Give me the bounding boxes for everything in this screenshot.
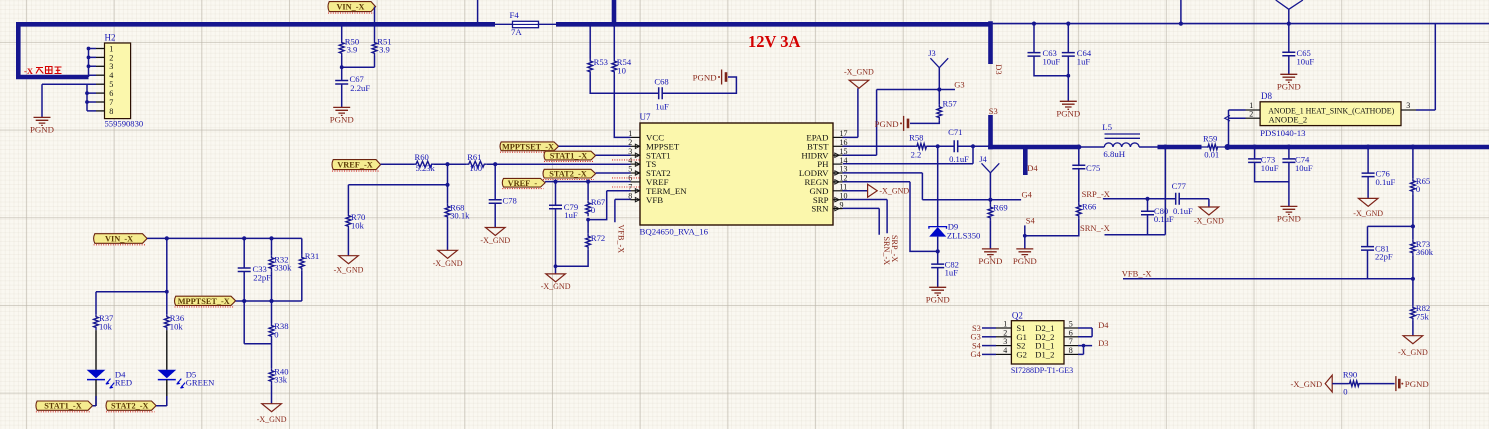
junction R60-R61 node [445, 162, 449, 166]
ground PGND of C82 [929, 287, 946, 295]
wire net S3 to Q2 [982, 327, 996, 329]
svg-text:0.1uF: 0.1uF [1376, 177, 1396, 187]
wire C67 to ground [341, 84, 343, 107]
wire C63 bottom join [1034, 56, 1068, 76]
pin 6 D2_2 of Q2 [1064, 336, 1078, 338]
wire thick stub net D3 [988, 21, 993, 64]
svg-text:-X_GND: -X_GND [879, 187, 909, 196]
ground PGND of S4 [1016, 249, 1033, 257]
junction LED branch [165, 236, 169, 240]
svg-text:1uF: 1uF [564, 210, 578, 220]
net label STAT2_-X bottom [106, 401, 156, 410]
wire R70 to gnd [347, 229, 349, 256]
svg-text:U7: U7 [640, 112, 651, 122]
svg-text:-X_GND: -X_GND [433, 259, 463, 268]
LED D4 RED [95, 330, 97, 370]
wire C81 to VFB net [1367, 250, 1369, 279]
wire G3 net [877, 89, 955, 91]
junction J3/R57 [937, 87, 941, 91]
wire bus to R65 [1412, 147, 1414, 178]
wire C65 to PGND [1288, 56, 1290, 75]
wire R82 to gnd [1412, 321, 1414, 336]
pin 12 REGN of U7 [833, 181, 843, 183]
svg-text:0.1uF: 0.1uF [949, 154, 969, 164]
resistor R54 [612, 59, 617, 75]
svg-text:SI7288DP-T1-GE3: SI7288DP-T1-GE3 [1011, 366, 1073, 375]
svg-text:S4: S4 [972, 341, 982, 350]
junction VREF-C79 [553, 180, 557, 184]
junction R37 branch [165, 290, 169, 294]
resistor R31 [299, 255, 304, 271]
svg-text:360k: 360k [1416, 247, 1434, 257]
svg-text:VREF_-: VREF_- [508, 179, 538, 188]
svg-text:D3: D3 [1098, 339, 1108, 348]
resistor R37 [94, 314, 99, 330]
wire to R40 [271, 344, 273, 368]
svg-text:R69: R69 [993, 202, 1007, 212]
svg-text:10: 10 [617, 65, 626, 75]
wire vertical to top edge at x1181 [1180, 0, 1182, 24]
wire R61 to TS pin 4 [487, 163, 631, 165]
svg-text:2.2uF: 2.2uF [350, 83, 370, 93]
svg-text:2.2: 2.2 [911, 150, 922, 160]
wire thick switch node bus to C75 [988, 145, 1079, 150]
net label VREF_- at U7 [502, 178, 545, 187]
svg-text:C71: C71 [948, 127, 962, 137]
wire R73 to R82 [1412, 256, 1414, 305]
resistor R73 [1411, 240, 1416, 256]
wire net S4 to Q2 [982, 345, 996, 347]
wire C64 to PGND [1067, 56, 1069, 101]
svg-text:D1_2: D1_2 [1035, 349, 1054, 359]
svg-text:2: 2 [1003, 328, 1007, 337]
junction REGN-D9-C82 [936, 249, 940, 253]
wire switch node to L5 [1079, 146, 1105, 148]
wire C82 to PGND [937, 268, 939, 288]
svg-text:VIN_-X: VIN_-X [105, 235, 133, 244]
ground PGND of R69 [982, 249, 999, 257]
svg-text:-X: -X [24, 66, 34, 76]
antenna J3 [930, 58, 948, 67]
svg-text:PGND: PGND [1277, 81, 1301, 91]
svg-text:6: 6 [109, 89, 113, 98]
ground PGND of C73/C74 [1280, 206, 1297, 214]
svg-text:0.01: 0.01 [1204, 149, 1219, 159]
wire LODRV down to G4 [843, 173, 923, 200]
svg-text:2: 2 [1249, 109, 1253, 118]
svg-text:SRN_-X: SRN_-X [882, 237, 891, 266]
pin 2 MPPSET of U7 [631, 145, 641, 147]
wire R65 to R73 [1412, 194, 1414, 240]
wire L5 to thick bus [1139, 146, 1158, 148]
junction R65 on bus [1410, 145, 1415, 150]
svg-text:D4: D4 [1027, 163, 1038, 173]
svg-text:22pF: 22pF [1375, 252, 1393, 262]
wire to R67 [587, 182, 589, 201]
ground -X_GND of C76 [1358, 198, 1378, 206]
wire thick -X solar positive bus top-left [18, 24, 495, 77]
svg-text:8: 8 [1069, 346, 1073, 355]
junction D8 on bus [1225, 144, 1231, 150]
svg-text:3: 3 [1003, 337, 1007, 346]
wire MPPTSET label to pin 2 [559, 145, 631, 147]
svg-text:0.1uF: 0.1uF [1154, 214, 1174, 224]
wire H2 ground run [42, 84, 87, 117]
wire G4 net [922, 199, 1021, 201]
junction SRN on bus [1163, 145, 1168, 150]
junction PH branch [971, 144, 975, 148]
wire C73 bottom join [1255, 162, 1289, 181]
svg-text:PGND: PGND [1277, 213, 1301, 223]
svg-text:1uF: 1uF [655, 102, 669, 112]
wire C33 bottom [243, 272, 245, 344]
svg-text:SRN: SRN [811, 204, 829, 214]
ground PGND of C67 [333, 107, 350, 115]
wire R67 to R72 [587, 220, 589, 234]
svg-text:D8: D8 [1261, 91, 1272, 101]
diode D8 PDS1040-13 body [1260, 102, 1401, 126]
junction C74 on bus [1286, 145, 1291, 150]
wire thick stub net D4 [1023, 145, 1028, 175]
wire thick vertical from top edge to VIN bus [612, 0, 617, 26]
pin 9 SRN of U7 [833, 208, 843, 210]
power port -X_GND arrow at GND pin [868, 184, 878, 197]
wire thick output bus to right edge [1226, 145, 1489, 150]
net label VIN_-X bottom [94, 234, 148, 244]
pin 13 LODRV of U7 [833, 172, 843, 174]
svg-text:PGND: PGND [1013, 256, 1037, 266]
power port PGND (bar) near R57 [903, 116, 905, 131]
svg-text:3: 3 [1406, 101, 1410, 110]
svg-text:PGND: PGND [926, 294, 950, 304]
ground -X_GND of R68 [438, 250, 458, 258]
svg-text:PDS1040-13: PDS1040-13 [1260, 128, 1306, 138]
svg-text:5.23k: 5.23k [416, 163, 436, 173]
pin 8 D1_2 of Q2 [1064, 353, 1078, 355]
wire HIDRV up to G3 [843, 90, 877, 156]
pin 7 of H2 [96, 101, 105, 103]
capacitor C79 [549, 205, 562, 209]
svg-text:MPPTSET_-X: MPPTSET_-X [178, 297, 230, 306]
svg-text:559590830: 559590830 [105, 119, 144, 129]
pin 8 of H2 [96, 110, 105, 112]
net label MPPTSET_-X bottom [175, 296, 236, 305]
pin 2 of H2 [96, 56, 105, 58]
wire C71 to switch node [958, 145, 989, 147]
wire net G3 to Q2 [982, 336, 996, 338]
pin 15 HIDRV of U7 [833, 154, 843, 156]
wire to R38 [271, 301, 273, 323]
wire to R32 [271, 238, 273, 255]
svg-text:VREF_-X: VREF_-X [337, 161, 373, 170]
wire C74 to PGND [1288, 162, 1290, 206]
svg-text:R72: R72 [591, 233, 605, 243]
svg-text:PGND: PGND [978, 256, 1002, 266]
svg-text:-X_GND: -X_GND [1291, 379, 1323, 389]
wire R59 leads [1201, 146, 1226, 148]
wire R32 to MPPTSET row [271, 271, 273, 301]
antenna J4 [982, 163, 1000, 173]
wire antenna arms [1276, 0, 1303, 9]
resistor R40 [269, 368, 274, 384]
svg-text:0: 0 [274, 330, 278, 340]
resistor R51 [372, 40, 377, 56]
net label STAT1_-X bottom [36, 401, 93, 410]
svg-text:RED: RED [115, 378, 132, 388]
svg-text:VFB_-X: VFB_-X [1122, 268, 1152, 278]
svg-text:G3: G3 [954, 80, 964, 90]
junction R50-C67 [340, 65, 344, 69]
net label MPPTSET_-X at U7 [500, 142, 559, 151]
junction D9 top [936, 144, 940, 148]
wire thick vert to R54 [613, 26, 615, 59]
svg-text:G4: G4 [1022, 190, 1033, 200]
capacitor C63 [1028, 53, 1041, 57]
svg-text:R31: R31 [305, 251, 319, 261]
svg-text:-X_GND: -X_GND [541, 282, 571, 291]
connector H2 [105, 43, 131, 119]
resistor R67 [586, 200, 591, 216]
svg-text:75k: 75k [1416, 312, 1430, 322]
wire C78 to gnd [494, 203, 496, 227]
power port -X_GND left triangle at R90 [1325, 375, 1332, 392]
junction C78 tap [493, 162, 497, 166]
compile squiggles near U7 left pins [612, 159, 641, 161]
resistor R90 [1349, 381, 1360, 386]
svg-text:5: 5 [1069, 320, 1073, 329]
svg-text:J3: J3 [928, 49, 935, 58]
svg-text:R59: R59 [1203, 134, 1217, 144]
junction R38 on row [269, 299, 273, 303]
svg-text:10k: 10k [170, 322, 184, 332]
wire VREF label to pin 6 [545, 181, 630, 183]
pin 4 of H2 [96, 74, 105, 76]
wire VIN row [147, 237, 302, 239]
ground PGND of C65 [1280, 74, 1297, 82]
net label STAT2_-X at U7 [543, 169, 596, 178]
wire TERM_EN to R67 bottom [588, 191, 630, 220]
wire to R31 [301, 238, 303, 255]
wire BTST node down to D9 cathode [937, 146, 939, 226]
wire J4 stem [989, 173, 991, 200]
svg-text:7: 7 [109, 98, 113, 107]
svg-text:L5: L5 [1102, 122, 1112, 132]
svg-text:-X_GND: -X_GND [1353, 209, 1383, 218]
wire C79 to gnd run [555, 209, 557, 266]
wire S4 stub down [1024, 225, 1026, 249]
svg-text:R60: R60 [415, 152, 429, 162]
svg-text:1uF: 1uF [1077, 57, 1091, 67]
svg-text:G2: G2 [1016, 349, 1027, 359]
wire Q2 D1 pins tied (net D3) [1078, 346, 1092, 355]
wire STAT1 label to D4 [93, 396, 96, 406]
svg-text:R66: R66 [1082, 201, 1097, 211]
ground -X_GND of EPAD [849, 80, 869, 88]
svg-text:1uF: 1uF [945, 268, 959, 278]
wire SRP sense [1103, 198, 1176, 200]
pin 7 D1_1 of Q2 [1064, 345, 1078, 347]
svg-text:S3: S3 [972, 324, 981, 333]
junction D1 tie [1082, 344, 1086, 348]
pin 3 STAT1 of U7 [631, 154, 641, 156]
wire to C79 [555, 182, 557, 206]
svg-text:R53: R53 [594, 57, 608, 67]
svg-text:H2: H2 [105, 33, 116, 43]
wire to C33 [243, 238, 245, 268]
capacitor C82 [931, 264, 944, 268]
resistor R32 [269, 255, 274, 271]
resistor R38 [269, 323, 274, 339]
ground -X_GND of R70 [339, 256, 359, 264]
pin 8 VFB of U7 [631, 199, 641, 201]
svg-text:-X_GND: -X_GND [1398, 348, 1428, 357]
svg-text:R58: R58 [909, 133, 923, 143]
svg-text:7: 7 [1069, 337, 1073, 346]
capacitor C76 [1362, 173, 1375, 177]
svg-text:PGND: PGND [875, 119, 899, 129]
wire thick VIN bus after fuse F4 [556, 22, 991, 27]
wire G3 to R57 [938, 90, 940, 105]
ground -X_GND of R82 [1403, 336, 1423, 344]
pin 10 SRP of U7 [833, 199, 843, 201]
wire C76 to gnd [1367, 177, 1369, 199]
wire R38 bottom join C33 [244, 339, 271, 344]
svg-text:S4: S4 [1026, 216, 1036, 226]
svg-text:R61: R61 [467, 152, 481, 162]
wire down to LED resistors [166, 238, 168, 291]
wire branch to R70 [348, 185, 447, 213]
svg-text:SRP_-X: SRP_-X [1082, 189, 1110, 199]
svg-text:5: 5 [109, 80, 113, 89]
junction C73 on bus [1252, 145, 1257, 150]
transistor Q2 SI7288DP body [1011, 321, 1064, 364]
pin 3 S2 of Q2 [996, 345, 1011, 347]
junction R32 top [269, 236, 273, 240]
svg-text:PGND: PGND [330, 114, 354, 124]
svg-text:12V 3A: 12V 3A [748, 32, 800, 51]
wire D8 cathode to battery rail [1416, 24, 1435, 110]
wire bus to R50 [341, 24, 343, 40]
svg-text:C77: C77 [1172, 181, 1187, 191]
junction C33 on row [242, 299, 246, 303]
junction C75 on bus [1076, 145, 1081, 150]
wire R53 to C68 [590, 75, 659, 94]
wire G4 to R69 [989, 200, 991, 205]
svg-text:4: 4 [1003, 346, 1007, 355]
wire STAT2 label to D5 [156, 396, 167, 406]
svg-text:GREEN: GREEN [186, 378, 215, 388]
svg-text:30.1k: 30.1k [450, 211, 470, 221]
svg-text:3.9: 3.9 [347, 44, 358, 54]
junction VFB node [1411, 277, 1415, 281]
junction C76 on bus [1366, 145, 1371, 150]
wire D9 anode to C82 [937, 237, 939, 265]
wire R69 to PGND [989, 221, 991, 249]
net label VIN_-X top [328, 2, 376, 12]
wire -X_GND to R90 [1332, 383, 1348, 385]
resistor R72 [586, 234, 591, 250]
wire VFB pin stub [615, 199, 631, 222]
svg-text:SRN_-X: SRN_-X [1080, 223, 1110, 233]
ground -X_GND of R40 [262, 404, 282, 412]
wire R40 to gnd [271, 384, 273, 404]
pin 14 PH of U7 [833, 163, 843, 165]
wire R72 bottom to gnd run [556, 250, 589, 267]
wire R90 to PGND bar [1360, 383, 1395, 385]
wire to C78 [494, 164, 496, 200]
pin 7 TERM_EN of U7 [631, 190, 641, 192]
svg-text:VFB: VFB [646, 195, 663, 205]
junction vertical to top edge [1179, 22, 1183, 26]
svg-text:-X_GND: -X_GND [480, 236, 510, 245]
wire D8 anodes to bus [1229, 110, 1246, 147]
wire GND pin to -X_GND arrow [843, 190, 868, 192]
svg-text:3.9: 3.9 [379, 44, 390, 54]
wire to C80 [1147, 199, 1149, 211]
svg-text:0: 0 [1416, 184, 1420, 194]
junction C80 top [1145, 197, 1149, 201]
capacitor C78 [489, 200, 502, 204]
wire net G4 to Q2 [982, 353, 996, 355]
wire R68 to gnd [447, 220, 449, 251]
wire J3 stem [938, 68, 940, 90]
svg-text:STAT2_-X: STAT2_-X [111, 402, 149, 411]
svg-text:33k: 33k [274, 375, 288, 385]
power port PGND (bar) at R90 [1395, 376, 1397, 391]
svg-text:S3: S3 [989, 106, 998, 116]
svg-text:-X_GND: -X_GND [1194, 217, 1224, 226]
svg-text:330k: 330k [274, 263, 292, 273]
svg-text:D4: D4 [1098, 321, 1109, 330]
wire SRN to bus [1164, 147, 1166, 235]
resistor R82 [1411, 305, 1416, 321]
wire STAT2 label to pin 5 [596, 172, 631, 174]
resistor R50 [339, 40, 344, 56]
svg-text:0: 0 [591, 205, 595, 215]
pin 2 ANODE_2 of D8 [1246, 117, 1261, 119]
pin 3 of H2 [96, 65, 105, 67]
svg-text:PGND: PGND [30, 124, 54, 134]
junction thick vertical [612, 22, 617, 27]
resistor R69 [988, 205, 993, 221]
wire R54 to VCC pin [614, 75, 630, 138]
svg-text:-X_GND: -X_GND [844, 68, 874, 77]
capacitor C74 [1282, 159, 1295, 163]
resistor R53 [588, 59, 593, 75]
svg-text:10k: 10k [351, 220, 365, 230]
wire to -X_GND [555, 266, 557, 274]
wire VIN label to bus [374, 7, 376, 25]
junction C81 branch [1411, 224, 1415, 228]
svg-text:R57: R57 [943, 98, 958, 108]
svg-text:G4: G4 [971, 350, 982, 359]
capacitor C81 [1361, 247, 1374, 251]
wire C80 to SRN [1147, 215, 1149, 235]
wire SRN sense [1105, 234, 1166, 236]
svg-text:10uF: 10uF [1261, 163, 1279, 173]
svg-text:C75: C75 [1086, 163, 1100, 173]
wire VFB net [1123, 278, 1413, 280]
svg-text:1: 1 [109, 44, 113, 53]
junction R67-TERM_EN [586, 218, 590, 222]
svg-text:BQ24650_RVA_16: BQ24650_RVA_16 [640, 226, 709, 236]
svg-text:VIN_-X: VIN_-X [336, 3, 364, 12]
wire Q2 D2 pins tied (net D4) [1078, 328, 1092, 337]
wire to R36 [166, 292, 168, 315]
capacitor C71 [954, 140, 958, 152]
svg-text:1: 1 [1003, 320, 1007, 329]
wire R50/R51 bottoms join [342, 56, 375, 67]
